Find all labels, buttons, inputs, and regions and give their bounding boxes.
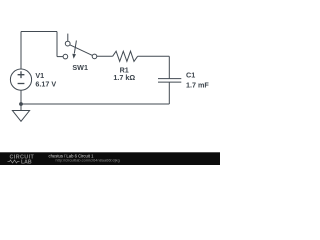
node junction at ground [19,102,23,106]
wire switch to resistor [97,55,113,57]
svg-text:http://circuitlab.com/c/64n8aa: http://circuitlab.com/c/64n8aa66b3jkg [56,158,120,163]
capacitor C1 [158,79,181,83]
svg-text:SW1: SW1 [72,63,88,72]
wire resistor to capacitor branch [138,55,170,57]
wire capacitor top lead [168,56,170,78]
voltage source V1 [10,69,31,90]
svg-text:1.7 kΩ: 1.7 kΩ [113,73,135,82]
ground [12,111,29,122]
wire top rail [21,31,57,33]
switch SW1 [63,34,97,59]
svg-text:1.7 mF: 1.7 mF [186,81,209,90]
svg-text:LAB: LAB [21,159,32,165]
wire capacitor bottom lead [168,82,170,104]
resistor R1 [113,51,138,61]
wire ground stem [20,104,22,111]
svg-text:C1: C1 [186,71,195,80]
CircuitLab logo [8,155,35,166]
wire V1 top lead [20,32,22,70]
footer bar [0,152,220,165]
wire left down leg [56,32,58,57]
wire to switch left terminal [57,56,63,58]
wire V1 bottom lead [20,90,22,104]
svg-text:6.17 V: 6.17 V [35,79,56,88]
wire bottom rail [21,103,169,105]
